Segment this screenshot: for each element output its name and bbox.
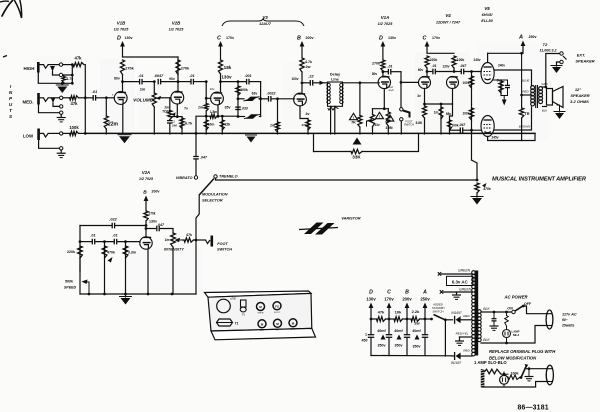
label 1/2 7025: [114, 28, 130, 32]
node mod out: [400, 81, 403, 84]
label 3.5M: [385, 126, 392, 130]
label V1B: [117, 21, 126, 26]
svg-text:7v: 7v: [184, 107, 188, 111]
wire: lower coupling row: [450, 104, 460, 130]
chassis knob 3: [258, 320, 266, 332]
label OFF: [524, 302, 532, 306]
potentiometer TONE 1m: [168, 111, 176, 120]
resistor 100k (lower): [448, 116, 452, 134]
varistor pair lower: [238, 114, 261, 118]
wire: bus tail: [522, 134, 535, 141]
lamp pilot: [500, 375, 509, 387]
label 100k: [457, 58, 465, 62]
capacitor 1mf 450v: [368, 319, 374, 356]
wire: V4b cathode: [452, 89, 454, 105]
svg-text:.022: .022: [109, 218, 117, 222]
tube V2B: [171, 91, 184, 104]
label 270k: [181, 67, 190, 71]
resistor 220k: [78, 246, 83, 271]
svg-text:47k: 47k: [186, 233, 192, 237]
label V3 12AU7 brace: [222, 19, 304, 26]
svg-text:1: 1: [365, 333, 367, 337]
svg-text:BLUE: BLUE: [522, 79, 531, 83]
label 220k: [67, 250, 75, 254]
svg-text:120v: 120v: [442, 65, 449, 69]
svg-text:a700: a700: [230, 297, 236, 301]
label 12DW7/7247: [436, 21, 461, 25]
svg-text:3.3m: 3.3m: [128, 251, 136, 255]
wire: V4a cathode: [424, 89, 426, 107]
supply arrow B (V2A): [144, 196, 149, 212]
label 1m: [165, 238, 170, 242]
label .01: [112, 234, 117, 238]
svg-text:FOOT: FOOT: [217, 242, 228, 246]
resistor 22k: [220, 115, 224, 134]
svg-text:.01: .01: [92, 89, 98, 94]
label .001: [245, 74, 252, 78]
label A 250v: [518, 35, 537, 41]
svg-text:7K: 7K: [351, 121, 356, 125]
svg-text:SWITCH: SWITCH: [217, 248, 232, 252]
label 270k: [148, 212, 155, 216]
svg-text:V2A: V2A: [142, 170, 150, 175]
label 47k: [186, 233, 192, 237]
label 47k: [71, 101, 79, 106]
svg-text:NE-2: NE-2: [513, 333, 520, 337]
svg-text:80v: 80v: [372, 72, 378, 76]
node tremolo inject: [476, 179, 479, 182]
svg-text:.0047: .0047: [154, 74, 164, 78]
node grid V1B: [105, 96, 108, 99]
capacitor .01 (V1A out): [383, 69, 401, 75]
svg-text:1/2 7025: 1/2 7025: [169, 28, 185, 32]
svg-text:12DW7 / 7247: 12DW7 / 7247: [436, 21, 461, 25]
svg-text:1m: 1m: [434, 111, 439, 115]
label REPLACE ORIGINAL PLUG: [489, 349, 556, 354]
label 13v: [374, 123, 380, 127]
svg-text:40mf: 40mf: [394, 329, 403, 333]
wire: osc bottom rail: [80, 293, 196, 296]
resistor 22m (grid leak): [104, 98, 108, 134]
wire: HIGH tip: [40, 65, 59, 69]
label RED: [522, 90, 529, 94]
switch footswitch lever: [403, 111, 410, 118]
switch fuse box: [520, 364, 546, 379]
label V5: [484, 6, 490, 11]
jack J1 HIGH: [37, 62, 40, 73]
svg-text:220k: 220k: [67, 250, 75, 254]
svg-text:6.8K: 6.8K: [416, 121, 423, 125]
svg-text:350v: 350v: [413, 345, 421, 349]
svg-text:T2: T2: [543, 42, 548, 47]
wire: tone branch: [169, 98, 171, 111]
label .022: [109, 218, 117, 222]
plug AC: [546, 310, 553, 329]
resistor 100k (V5l grid leak): [469, 104, 473, 132]
svg-text:.033: .033: [241, 107, 248, 111]
annotation triangle: [350, 113, 358, 120]
label 4.7k: [185, 122, 193, 126]
label 11,000:3.2: [540, 49, 557, 53]
svg-text:130v: 130v: [125, 36, 133, 40]
wire: down to node: [400, 72, 402, 83]
wire: MED sleeve: [39, 105, 60, 113]
label 1m: [270, 124, 275, 128]
svg-text:100k: 100k: [511, 372, 519, 376]
svg-text:200v: 200v: [152, 190, 160, 194]
svg-text:1m: 1m: [165, 238, 170, 242]
svg-text:V2B: V2B: [172, 21, 181, 26]
svg-text:47k: 47k: [75, 56, 83, 61]
wire: to V1B grid: [106, 97, 114, 99]
label 1 450: [362, 333, 368, 343]
label 7v: [184, 107, 188, 111]
wire: frame left: [237, 80, 240, 118]
wire: osc row1: [80, 225, 111, 227]
label 60v: [418, 68, 424, 72]
ground (ext jack): [551, 66, 563, 74]
supply arrow C (V3): [218, 41, 223, 60]
label C 170v: [423, 36, 440, 42]
wire: frame top: [221, 81, 246, 83]
svg-text:V1B: V1B: [117, 21, 126, 26]
label RED/YEL: [456, 332, 469, 336]
x mark 1: [438, 272, 441, 275]
wire: V5 cathode network top: [493, 79, 508, 81]
box 6.3v AC: [447, 276, 474, 285]
svg-text:1.5m: 1.5m: [210, 110, 217, 114]
label IN1697 (bottom): [451, 361, 462, 365]
svg-text:270k: 270k: [181, 67, 190, 71]
tube V3a: [211, 92, 224, 105]
capacitor (V5 cathode): [505, 80, 510, 96]
svg-text:4.7k: 4.7k: [305, 60, 312, 64]
label BROWN: [519, 125, 531, 129]
svg-text:.047: .047: [460, 64, 468, 68]
contact standby: [430, 318, 433, 321]
svg-text:SPK: SPK: [291, 329, 296, 331]
wire: cathode network bottom: [501, 96, 508, 100]
label 130v: [149, 220, 157, 224]
label C 170v (ps): [384, 290, 394, 302]
annotation triangle (feedback): [353, 138, 362, 145]
label .033: [241, 107, 248, 111]
label BLK: [542, 109, 547, 113]
label 63v: [252, 92, 258, 96]
switch MODULATION SELECTOR: [196, 179, 214, 241]
svg-text:33K: 33K: [352, 155, 361, 160]
svg-text:100: 100: [172, 124, 177, 128]
resistor 47k (trem): [183, 238, 194, 242]
resistor 4.7k: [62, 75, 66, 83]
wire: V2B cathode: [169, 104, 182, 118]
label 22k: [225, 123, 231, 127]
label 47k: [75, 56, 83, 61]
label 240v (V5u plate): [473, 58, 480, 62]
wiper VOLUME: [156, 96, 171, 100]
wire: rectifier rail: [444, 320, 446, 356]
tube V5 upper: [481, 63, 494, 84]
label V4: [445, 13, 451, 18]
svg-text:3.2 OHMS: 3.2 OHMS: [570, 99, 589, 104]
svg-text:250v: 250v: [529, 35, 537, 39]
svg-text:270k: 270k: [372, 62, 380, 66]
tube V4a: [419, 77, 431, 89]
svg-text:130v: 130v: [221, 75, 232, 80]
wire: ext speaker line: [544, 54, 559, 89]
label BLUE: [522, 79, 531, 83]
wire: LOW sleeve: [39, 140, 60, 148]
transformer primary bumps: [478, 310, 482, 342]
capacitor .0022: [261, 96, 295, 102]
supply arrow C (ps): [387, 303, 392, 320]
resistor 100k (V4b plate): [452, 56, 456, 72]
wire: V2A plate lead: [145, 226, 147, 237]
jack FOOT SWITCH: [206, 236, 214, 247]
wire: to footswitch: [400, 82, 402, 107]
svg-text:60~: 60~: [562, 318, 568, 322]
label TREMELO: [219, 175, 238, 179]
chassis knob 4: [274, 319, 282, 331]
svg-text:BLK: BLK: [542, 109, 547, 113]
svg-text:ON: ON: [507, 307, 513, 311]
svg-text:1m: 1m: [270, 124, 275, 128]
svg-text:VOLUME: VOLUME: [133, 98, 154, 103]
wire: delay out: [343, 82, 360, 84]
resistor 10k (ps): [394, 317, 403, 322]
resistor 47k (HIGH mix): [73, 63, 84, 67]
label 6HU8: [482, 13, 494, 17]
label GREEN bottom: [459, 288, 472, 292]
svg-text:RED: RED: [463, 314, 470, 318]
resistor 33K: [351, 149, 362, 153]
svg-text:C: C: [423, 36, 427, 42]
potentiometer 1m INTENSITY: [171, 233, 183, 294]
supply arrow A: [521, 41, 526, 52]
label 470k annotation: [482, 183, 492, 191]
label .01: [138, 74, 143, 78]
label T2: [543, 42, 548, 47]
svg-text:EXT.: EXT.: [577, 53, 586, 58]
svg-text:AC POWER: AC POWER: [503, 295, 527, 300]
capacitor .01 (osc2): [114, 239, 140, 245]
wire: V2A grid row to tube: [139, 241, 141, 244]
svg-text:GRN: GRN: [541, 82, 548, 86]
stray mark: [3, 56, 7, 58]
switch AC power: [515, 305, 525, 311]
svg-text:10m: 10m: [208, 123, 215, 127]
svg-text:TR: TR: [524, 112, 529, 116]
label 90v: [169, 77, 175, 81]
svg-text:V5: V5: [484, 6, 490, 11]
svg-text:35v: 35v: [225, 106, 231, 110]
label VARISTOR: [341, 217, 361, 221]
capacitor .047 (lower): [460, 127, 481, 133]
label V2B: [172, 21, 181, 26]
capacitor .0047: [158, 79, 178, 85]
label B 200v: [297, 36, 313, 42]
label .01: [90, 234, 95, 238]
svg-text:100v: 100v: [291, 77, 298, 81]
svg-text:!: !: [353, 116, 354, 120]
svg-text:450: 450: [362, 339, 368, 343]
svg-text:12AU7: 12AU7: [259, 22, 272, 26]
svg-text:2w: 2w: [414, 321, 420, 326]
svg-text:C: C: [217, 36, 221, 42]
label 4v: [306, 112, 310, 116]
svg-text:C: C: [387, 290, 391, 296]
label AC POWER: [503, 295, 527, 300]
chassis knob 1: [257, 303, 265, 315]
wire: switch to plug: [523, 306, 546, 314]
wire: MED tip: [40, 98, 60, 102]
ground (HIGH jack): [56, 83, 69, 93]
label 3.3m: [128, 251, 136, 255]
svg-text:B: B: [143, 190, 147, 196]
resistor (V5 cathode): [499, 80, 503, 96]
jack EXT SPEAKER: [557, 52, 567, 66]
svg-text:ELL80: ELL80: [481, 19, 493, 23]
svg-text:BROWN: BROWN: [519, 125, 531, 129]
ground (oscillator): [119, 294, 132, 305]
capacitor .047 (trem out): [145, 226, 173, 233]
svg-text:.01: .01: [388, 65, 393, 69]
wire: V2B plate lead: [177, 82, 179, 92]
svg-text:1m: 1m: [140, 88, 146, 92]
wire: osc row2: [80, 241, 91, 243]
wire: BROWN: [494, 107, 531, 130]
svg-text:.01: .01: [112, 234, 117, 238]
svg-text:.047: .047: [200, 156, 208, 160]
label IN1697 (top): [451, 311, 462, 315]
supply arrow A (ps): [423, 303, 428, 320]
svg-text:130v: 130v: [366, 297, 376, 302]
svg-text:1/2 7025: 1/2 7025: [114, 28, 130, 32]
node footswitch: [195, 239, 198, 242]
svg-text:6.3v AC: 6.3v AC: [452, 279, 469, 284]
svg-text:10k: 10k: [395, 310, 402, 315]
svg-text:470k: 470k: [482, 187, 492, 191]
x mark 2: [440, 290, 443, 293]
svg-text:GREEN: GREEN: [458, 269, 471, 273]
resistor 4.7k (V2B cathode): [180, 117, 184, 134]
label .047: [200, 156, 208, 160]
svg-text:100k: 100k: [240, 88, 248, 92]
wire: mod to V4 grid: [401, 81, 418, 83]
node V3b plate: [301, 81, 304, 93]
label 7K: [351, 121, 356, 125]
svg-text:P: P: [9, 96, 13, 101]
label 1 AMP SLO-BLO: [474, 360, 507, 365]
wire: ps rail: [370, 318, 430, 321]
svg-text:500k: 500k: [65, 280, 74, 284]
svg-text:220k: 220k: [430, 58, 438, 62]
wire: V3b cathode: [300, 106, 308, 119]
label .0022: [267, 92, 276, 96]
svg-text:2.2k: 2.2k: [412, 309, 421, 314]
svg-text:RED: RED: [522, 90, 529, 94]
label 220k: [430, 58, 438, 62]
svg-text:1/2 7025: 1/2 7025: [139, 177, 154, 181]
label mod ampl: [388, 86, 394, 92]
tube V4b: [447, 77, 459, 89]
svg-text:T: T: [9, 108, 13, 113]
svg-text:100k: 100k: [462, 81, 469, 85]
node osc c: [124, 240, 127, 243]
label 35v: [225, 106, 231, 110]
svg-text:6HU8/: 6HU8/: [482, 13, 494, 17]
wire: fuse bottom rail: [483, 382, 546, 388]
label 4.7k 2w: [305, 60, 312, 69]
label 1m TONE: [162, 106, 172, 114]
wire: to foot jack: [194, 239, 206, 241]
label BELOW MODIFICATION: [489, 356, 537, 361]
label V2A: [139, 170, 154, 181]
label 1m: [198, 106, 203, 110]
capacitor .01 (V1B out): [140, 79, 154, 85]
svg-text:SPEED: SPEED: [64, 286, 77, 290]
label 270k: [125, 67, 134, 71]
svg-text:D: D: [369, 290, 373, 296]
svg-text:.01: .01: [432, 64, 437, 68]
svg-text:.047: .047: [459, 123, 467, 127]
label 1m: [434, 111, 439, 115]
chassis fuse holder: [240, 300, 246, 317]
svg-text:117v AC: 117v AC: [562, 313, 577, 317]
resistor 220k: [425, 56, 429, 77]
node: mixing bus: [84, 96, 87, 99]
svg-text:U: U: [9, 102, 13, 107]
svg-text:270k: 270k: [148, 212, 155, 216]
svg-text:SPKR: SPKR: [258, 313, 264, 315]
label BLK bottom: [483, 338, 490, 342]
wire: green top: [442, 273, 473, 275]
label 1/2 7025: [169, 28, 185, 32]
wire: V1B plate lead: [122, 82, 124, 92]
resistor 100k (frame): [236, 86, 240, 96]
wire: V1B top rail: [123, 56, 179, 58]
wire: 100k to bus: [79, 132, 87, 135]
varistor pair upper: [237, 97, 262, 101]
label 80v: [114, 77, 120, 81]
svg-text:I: I: [10, 84, 12, 89]
potentiometer VOLUME 1m: [152, 82, 156, 134]
wire: HIGH sleeve: [38, 73, 73, 85]
wire: V5u top: [487, 53, 489, 62]
resistor 10m: [204, 116, 208, 134]
capacitor 40mf (B): [404, 319, 410, 356]
wire: RED center tap: [520, 94, 531, 97]
wire: V5 lower bottom: [488, 137, 522, 141]
svg-text:HIGH: HIGH: [24, 66, 35, 71]
label 68v: [446, 112, 452, 116]
wire: grid return lower: [472, 160, 478, 180]
wire: footswitch down: [195, 240, 197, 294]
label ON: [507, 307, 513, 311]
resistor 1m (tail): [439, 104, 443, 134]
svg-text:170v: 170v: [432, 36, 440, 40]
shading patches: [36, 44, 548, 355]
svg-text:MUSICAL INSTRUMENT AMPLIFIER: MUSICAL INSTRUMENT AMPLIFIER: [492, 177, 587, 183]
switch standby lever: [434, 315, 446, 320]
svg-text:240v: 240v: [498, 64, 505, 68]
resistor 270k (V2B plate): [176, 57, 180, 82]
svg-text:IN1697: IN1697: [451, 311, 462, 315]
label 40mf 350v: [412, 329, 421, 349]
label 2.2k 2w: [412, 309, 421, 326]
tube V1B: [114, 92, 127, 105]
wire: frame right: [260, 82, 262, 117]
